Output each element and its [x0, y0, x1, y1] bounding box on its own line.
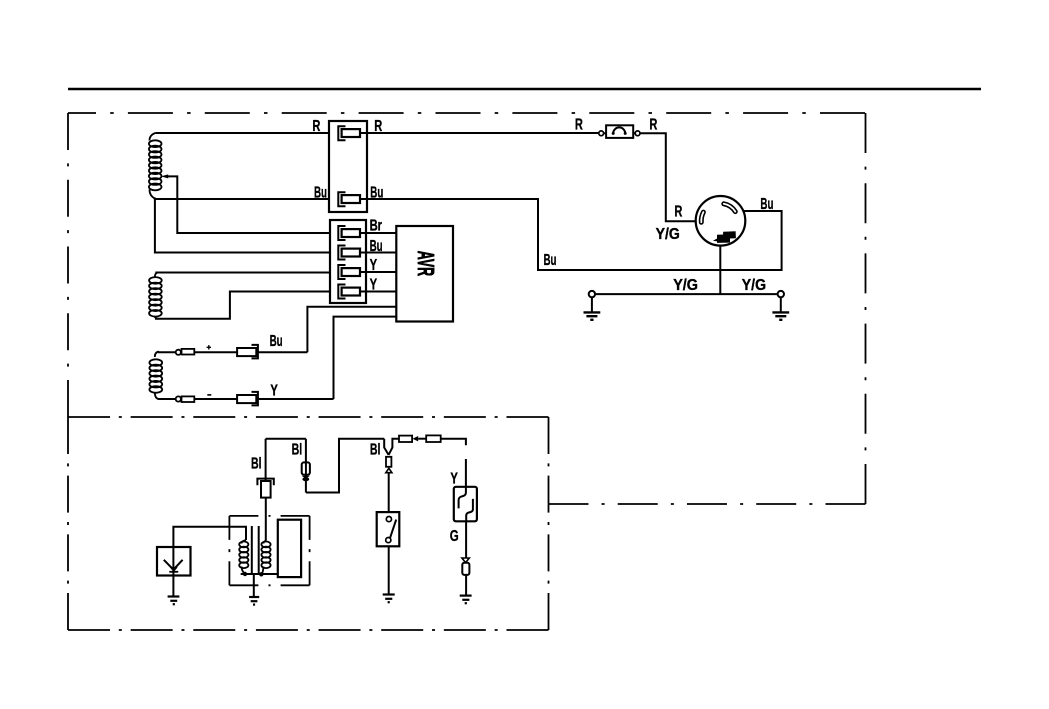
wire W1 top to connector R — [155, 132, 341, 134]
svg-text:R: R — [374, 117, 382, 134]
label minus — [207, 394, 211, 396]
Y-split male triangle — [386, 468, 392, 472]
winding W2 lighting coil — [149, 273, 162, 319]
svg-text:Bl: Bl — [251, 454, 262, 472]
connector Bu+ bracket — [252, 345, 258, 359]
AVR wire B to charge - — [334, 317, 397, 399]
ground G3 — [460, 596, 472, 604]
T1 bottom bus — [241, 573, 278, 575]
winding W3 charge coil — [149, 352, 162, 399]
svg-text:R: R — [575, 116, 583, 133]
oil switch bottom contact — [386, 538, 391, 543]
Bl fuse lower contact — [302, 476, 311, 479]
svg-text:Y/G: Y/G — [742, 276, 766, 294]
tap arrow on W1 — [161, 174, 168, 178]
module box — [278, 520, 301, 577]
junction dot secondary — [259, 572, 263, 576]
top rule — [68, 88, 981, 90]
connector pair rect 1 — [399, 436, 412, 442]
wire below suppressor — [465, 521, 467, 558]
fuse F1 body — [606, 125, 633, 138]
wire tap to pin Br — [168, 176, 342, 233]
wire Bu from J1 to key switch — [360, 199, 782, 270]
svg-text:Bu: Bu — [314, 183, 327, 201]
wire W1 bottom junction — [155, 198, 342, 200]
wire plus to connector — [158, 351, 237, 353]
wire to ground G3 — [465, 575, 467, 595]
wire down to oil switch — [388, 473, 390, 512]
svg-text:G: G — [450, 526, 459, 544]
svg-text:Y/G: Y/G — [673, 276, 698, 294]
svg-text:Bl: Bl — [292, 440, 303, 458]
wire between connectors — [418, 438, 426, 440]
Bl connector sleeve — [261, 481, 271, 498]
key switch rotor blob — [723, 231, 736, 239]
svg-text:R: R — [674, 203, 682, 220]
inner boundary bottom — [68, 629, 549, 631]
pin R of J1 — [338, 126, 360, 140]
wire Bu+ to AVR wire A — [258, 351, 308, 353]
svg-text:Y/G: Y/G — [656, 225, 680, 243]
Y suppressor box — [454, 487, 477, 522]
W3 minus terminal circle — [176, 396, 181, 401]
connector pair rect 2 — [426, 435, 441, 442]
key switch contact arc left — [701, 212, 703, 222]
sleeve below — [462, 563, 469, 575]
connector Y- bracket — [252, 392, 258, 406]
outer boundary right — [865, 113, 867, 504]
Bl connector bracket — [257, 479, 273, 486]
ground G1 — [584, 297, 601, 320]
svg-text:Y: Y — [450, 469, 457, 488]
ignition coil T1 core — [252, 526, 259, 574]
pin Y3 of J2 — [338, 265, 360, 279]
AVR wire A to charge + — [307, 307, 396, 353]
ground bus right terminal — [778, 291, 784, 297]
connector Y- rect — [237, 395, 256, 403]
connector pair male triangle — [412, 436, 418, 441]
outer boundary left — [67, 113, 69, 417]
svg-text:Y: Y — [270, 381, 277, 400]
CDI unit boundary — [229, 516, 309, 585]
pin Bu of J1 — [338, 192, 360, 206]
rectifier element — [164, 560, 183, 569]
junction dot primary — [243, 572, 247, 576]
winding W1 main coil — [149, 133, 162, 199]
wire across bottom to riser — [306, 439, 384, 493]
oil switch top contact — [386, 517, 391, 522]
ignition coil T1 primary — [239, 540, 248, 574]
svg-text:Y: Y — [370, 275, 377, 294]
fuse F1 element arc — [613, 127, 625, 133]
wire down through Bl fuse — [305, 439, 307, 493]
wire R fuse to key switch — [640, 133, 696, 221]
ground G5 — [168, 597, 180, 605]
wire R from J1 to fuse — [360, 132, 599, 134]
male triangle down — [462, 558, 469, 563]
svg-text:Bl: Bl — [370, 440, 381, 458]
AVR box U1 — [396, 226, 453, 322]
wires J2 pins to AVR — [360, 233, 396, 292]
svg-text:Br: Br — [370, 216, 383, 235]
wire W1 bottom down to pin Bu of connector J2 — [155, 199, 342, 253]
pin Bu of J2 — [338, 246, 360, 260]
svg-text:R: R — [649, 116, 657, 133]
Y suppressor element — [459, 487, 466, 509]
wire to Y suppressor column — [441, 439, 466, 487]
connector J2 box — [330, 220, 366, 303]
ground G2 — [772, 297, 789, 320]
wire minus to connector — [158, 398, 237, 400]
rectifier box — [157, 547, 191, 576]
Bl fuse body — [302, 462, 310, 474]
key switch bottom wire — [719, 246, 721, 295]
Y-split sleeve — [386, 457, 391, 467]
wire rectifier to ground G5 — [172, 576, 174, 596]
svg-text:Y: Y — [370, 255, 377, 274]
svg-text:Bu: Bu — [760, 195, 773, 213]
wire W2 top to pin Y3 — [155, 272, 341, 274]
ignition coil T1 secondary — [261, 541, 270, 575]
connector Bu+ rect — [237, 348, 256, 356]
ground G6 — [249, 597, 259, 605]
wire rectifier top — [173, 527, 246, 547]
oil switch blade — [390, 520, 396, 539]
outer boundary bottom — [549, 503, 866, 505]
wire Bl connector to T1 secondary — [265, 498, 267, 541]
fuse F1 left lead circle — [599, 131, 604, 136]
wire to ground G4 — [388, 546, 390, 593]
key switch contact arc right — [724, 204, 736, 212]
connector J1 box — [329, 121, 367, 212]
W3 plus terminal circle — [176, 350, 181, 355]
wire T1 to ground G6 — [253, 574, 255, 597]
ground bus left terminal — [589, 291, 595, 297]
wire Y- to AVR wire B — [258, 398, 334, 400]
key switch SW1 circle — [696, 196, 746, 246]
W3 minus terminal sleeve — [182, 396, 195, 402]
wire down to Bl connector — [265, 439, 267, 481]
svg-text:Bu: Bu — [544, 251, 557, 269]
inner boundary left — [67, 417, 69, 630]
lower section wire from W3 circuit top — [266, 438, 306, 440]
pin Y4 of J2 — [338, 285, 360, 299]
Y-split connector — [384, 439, 388, 455]
svg-text:AVR: AVR — [413, 251, 439, 276]
fuse F1 right lead circle — [635, 131, 640, 136]
label plus — [207, 345, 211, 349]
outer boundary top — [68, 112, 866, 114]
inner boundary right — [548, 417, 550, 630]
inner boundary top — [68, 416, 549, 418]
ground bus line — [595, 293, 777, 295]
fuse F1 lead stubs — [604, 132, 636, 134]
svg-text:Bu: Bu — [270, 332, 283, 350]
W3 plus terminal sleeve — [182, 349, 195, 355]
pin Br of J2 — [338, 226, 360, 240]
wire W2 bottom to pin Y4 — [155, 292, 342, 319]
svg-text:R: R — [312, 117, 320, 134]
ground G4 — [383, 595, 395, 603]
oil switch box — [377, 512, 400, 546]
